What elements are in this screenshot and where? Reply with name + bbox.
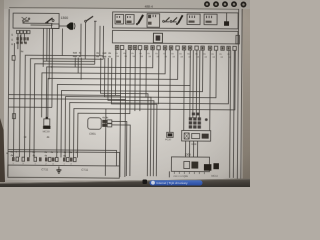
relay cell C	[187, 14, 200, 25]
labels mid-left cluster 1	[73, 52, 82, 59]
wire S4	[57, 49, 191, 159]
vertical wires from left box down	[42, 28, 44, 66]
wire S6	[65, 49, 216, 159]
long rails lower left	[8, 95, 121, 177]
pin box	[20, 30, 23, 33]
connector stack above D88	[189, 113, 208, 129]
pin box	[16, 30, 19, 33]
wires label cluster 2 to bottom right	[100, 58, 148, 176]
wire S3	[48, 49, 178, 118]
bezel dots top right	[205, 2, 246, 7]
wire below box	[61, 29, 63, 56]
sub box bottom	[112, 30, 238, 43]
status pill	[150, 180, 203, 185]
wire from C001 to right	[111, 121, 126, 176]
vertical wires from left connectors to bottom row	[12, 60, 15, 157]
wire T1	[24, 55, 103, 158]
wire x170 down	[168, 171, 170, 177]
dot 2	[214, 2, 218, 6]
ground symbol inside	[56, 166, 61, 173]
page of the wiring diagram	[4, 8, 245, 180]
switch blade dark 2	[176, 15, 182, 25]
schematic (slight photo rotation)	[6, 4, 242, 179]
relay cell D	[204, 14, 217, 25]
PC20 component	[165, 132, 173, 141]
CT11 bottom ECU box	[8, 165, 120, 178]
wire S8	[73, 49, 235, 159]
wire	[31, 24, 53, 26]
wire S7	[69, 49, 229, 159]
label col	[11, 34, 13, 47]
switch S1 glyph	[22, 17, 31, 23]
connector row 2 glyphs	[16, 37, 28, 44]
mid-top vertical wires	[80, 24, 82, 56]
page border left	[8, 9, 9, 176]
labels above bottom rows	[24, 136, 50, 139]
bottom-left dark wedge	[0, 118, 5, 182]
horn speaker symbol	[67, 22, 75, 30]
top strip above page	[0, 0, 250, 9]
photo background	[0, 0, 250, 187]
wire T3	[34, 64, 95, 158]
photo vignette	[0, 0, 250, 187]
page border top	[9, 7, 238, 9]
tiny labels under pin row	[115, 52, 231, 59]
switch arcs cluster	[163, 17, 177, 22]
dot 4	[232, 2, 236, 6]
left edge photo shading	[0, 0, 4, 187]
right margin outside page	[243, 6, 251, 182]
wire S5	[61, 49, 203, 159]
connector row under left box	[16, 30, 30, 33]
wire to horn	[59, 25, 68, 27]
pin box	[23, 31, 26, 34]
page border right double	[237, 9, 238, 179]
inner box at speaker feed	[52, 24, 60, 29]
hanging lamp symbol	[224, 13, 229, 26]
D88 relay box	[182, 130, 211, 146]
buzzer square symbol in sub box	[153, 33, 162, 43]
relay cell A	[115, 14, 124, 24]
horn switch blade	[45, 18, 54, 23]
MC30 sensor	[43, 117, 51, 133]
pin row under main box	[115, 45, 236, 50]
wires D88 to 1304	[184, 141, 186, 157]
pin boxes right of C001	[102, 116, 112, 127]
relay cell B	[126, 15, 135, 25]
wire T2	[30, 59, 104, 158]
main fuse/relay box (top right)	[113, 12, 239, 29]
C001 connector rounded box	[88, 118, 102, 136]
mid-top switch glyph	[85, 16, 97, 22]
inline box on left wire	[12, 114, 15, 119]
label stubs cluster 1	[74, 58, 76, 67]
labels mid-left cluster 2	[96, 52, 111, 59]
dot 1	[205, 2, 209, 6]
narrow box at border	[236, 35, 240, 44]
combination switch unit box (top-left)	[13, 13, 59, 28]
dot 5	[241, 2, 245, 6]
bottom connector rows left (tiny text + boxes)	[6, 151, 77, 158]
dot 3	[223, 2, 227, 6]
pin ticks below	[174, 171, 204, 174]
inline fuse on wire	[12, 56, 15, 61]
wire	[31, 22, 53, 24]
wire S1	[46, 49, 153, 118]
switch blade dark	[136, 15, 143, 25]
tall inner box	[147, 14, 160, 28]
wire B1	[78, 49, 131, 158]
horizontals from left box area	[43, 60, 94, 62]
bottom dark taskbar	[0, 179, 250, 188]
wire S2	[42, 49, 166, 118]
pin box	[27, 31, 30, 34]
taskbar icon	[143, 180, 148, 185]
1304 control unit box	[171, 152, 219, 178]
straight drop wires from pin row	[134, 50, 136, 111]
